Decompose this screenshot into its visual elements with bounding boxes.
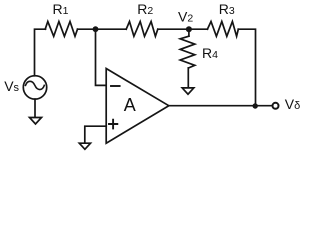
svg-text:R1: R1: [53, 1, 69, 17]
op-amp minus input sign: [111, 85, 120, 87]
voltage source Vs circle: [23, 76, 46, 99]
wire: source bottom stub to ground: [34, 99, 36, 118]
op-amp U1 triangle: [106, 69, 169, 144]
svg-text:R2: R2: [137, 1, 153, 17]
ground below Vs: [30, 118, 42, 125]
resistor R2: [126, 22, 158, 37]
output terminal open circle: [273, 103, 279, 109]
wire: R4 bottom to ground: [187, 68, 189, 88]
wire: R1 to R2 through node 1: [78, 28, 127, 30]
wire: op-amp noninverting input to ground stub: [85, 126, 106, 143]
ground below R4: [182, 88, 194, 94]
svg-text:Vs: Vs: [4, 78, 19, 94]
svg-text:V2: V2: [178, 8, 193, 24]
wire: main top net from source through R1, node 1, R2, node V2, R3, then down right side: [35, 29, 46, 76]
output node junction dot: [253, 103, 258, 108]
op-amp plus input sign: [109, 120, 117, 129]
svg-text:R3: R3: [219, 1, 235, 17]
node V2 junction dot: [186, 26, 192, 32]
wire: node 1 down to op-amp inverting input: [96, 31, 107, 86]
voltage source Vs sine symbol: [26, 81, 45, 89]
wire: R3 to right-side vertical drop to output net: [238, 29, 255, 106]
wire: R2 to R3 through node V2: [158, 28, 208, 30]
resistor R3: [207, 22, 238, 37]
resistor R4: [180, 36, 195, 68]
svg-text:R4: R4: [202, 45, 218, 61]
node 1 junction dot: [93, 26, 99, 32]
resistor R1: [45, 22, 77, 37]
wire: node V2 down to R4: [188, 31, 190, 37]
wire: op-amp output to terminal: [169, 105, 273, 107]
svg-text:A: A: [124, 95, 136, 115]
svg-text:Vδ: Vδ: [285, 96, 300, 112]
ground below op-amp noninverting input: [79, 143, 90, 149]
